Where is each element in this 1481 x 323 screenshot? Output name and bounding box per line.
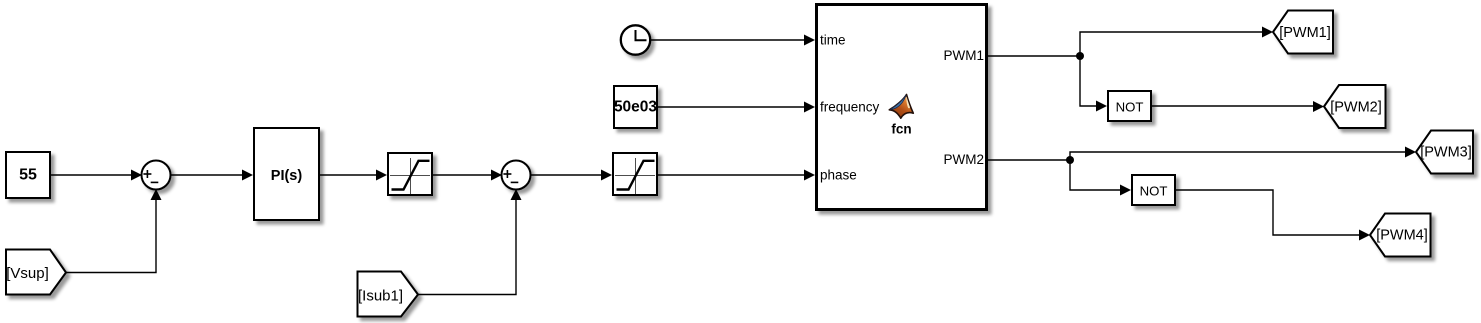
svg-text:frequency: frequency	[820, 100, 880, 115]
svg-text:[PWM2]: [PWM2]	[1330, 100, 1382, 116]
svg-text:PI(s): PI(s)	[271, 168, 303, 184]
svg-text:phase: phase	[820, 168, 857, 183]
svg-text:time: time	[820, 33, 846, 48]
svg-text:NOT: NOT	[1140, 184, 1168, 199]
svg-text:[PWM1]: [PWM1]	[1279, 25, 1331, 41]
svg-text:50e03: 50e03	[614, 99, 657, 116]
svg-text:55: 55	[19, 167, 37, 184]
svg-text:[PWM3]: [PWM3]	[1420, 145, 1472, 161]
svg-text:[Vsup]: [Vsup]	[6, 265, 49, 282]
svg-text:[PWM4]: [PWM4]	[1376, 228, 1428, 244]
svg-text:fcn: fcn	[891, 122, 911, 137]
svg-text:PWM2: PWM2	[944, 152, 985, 167]
svg-text:PWM1: PWM1	[944, 48, 985, 63]
svg-text:NOT: NOT	[1116, 100, 1144, 115]
svg-text:[Isub1]: [Isub1]	[358, 288, 403, 305]
